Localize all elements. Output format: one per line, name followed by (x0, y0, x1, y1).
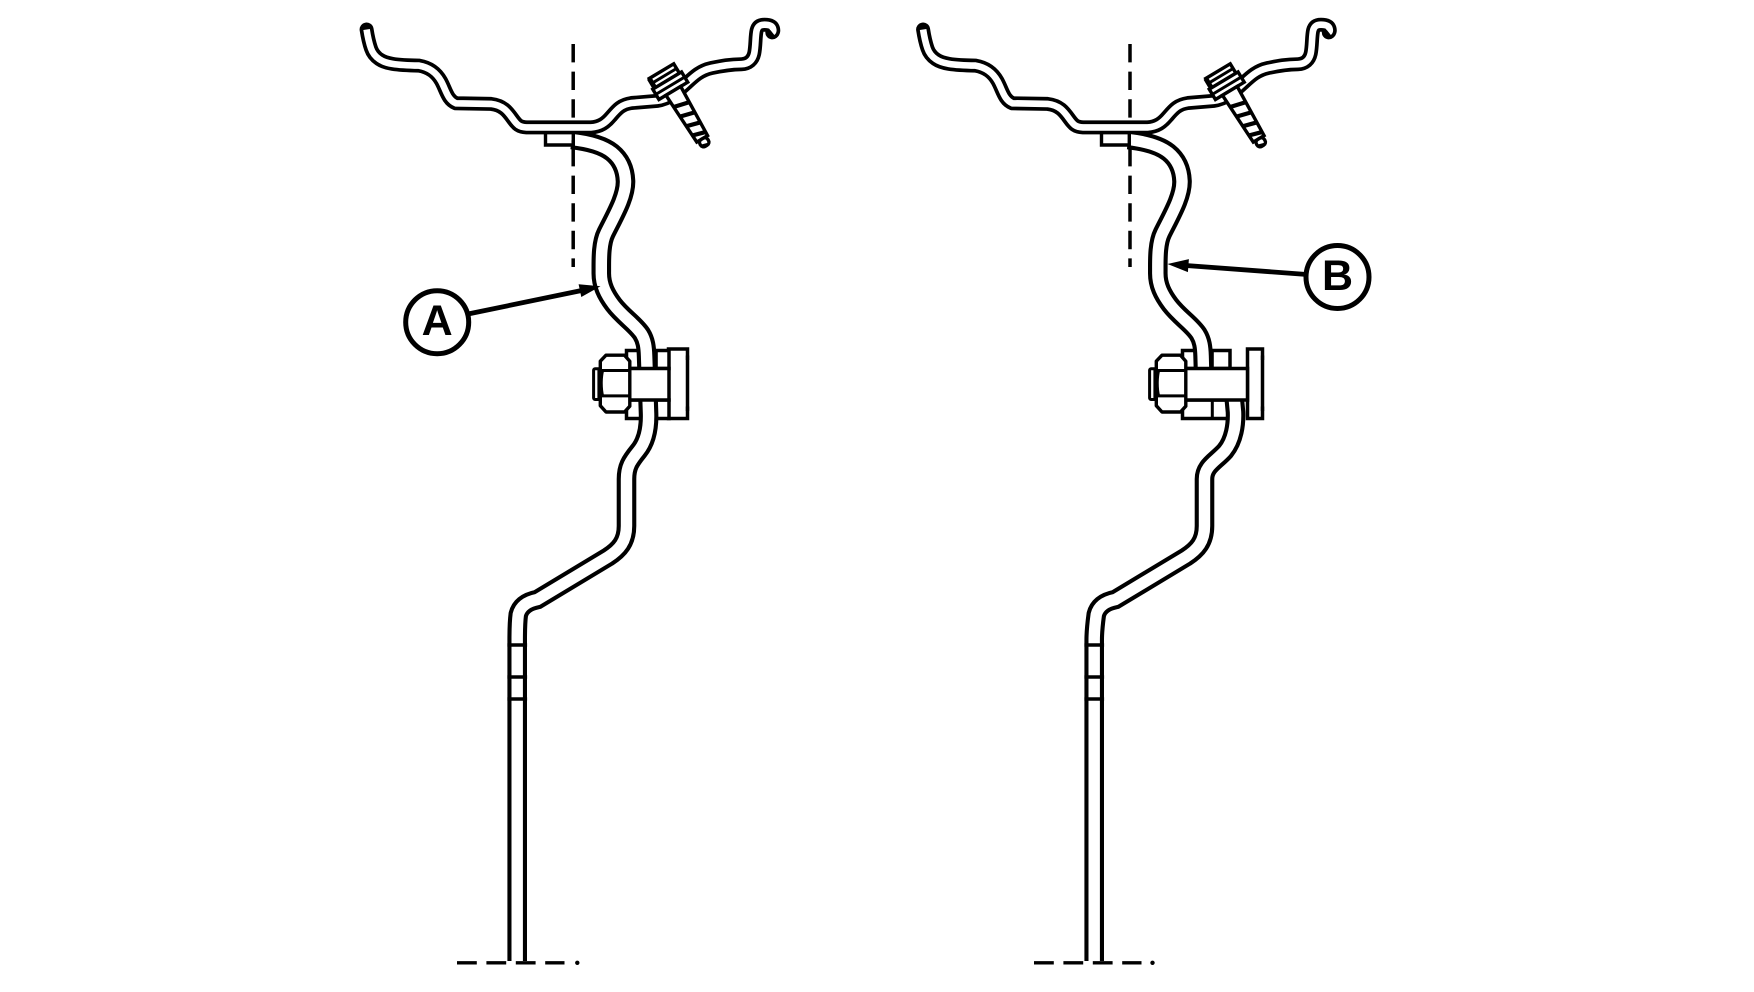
svg-text:A: A (422, 297, 453, 345)
svg-text:B: B (1322, 252, 1353, 300)
